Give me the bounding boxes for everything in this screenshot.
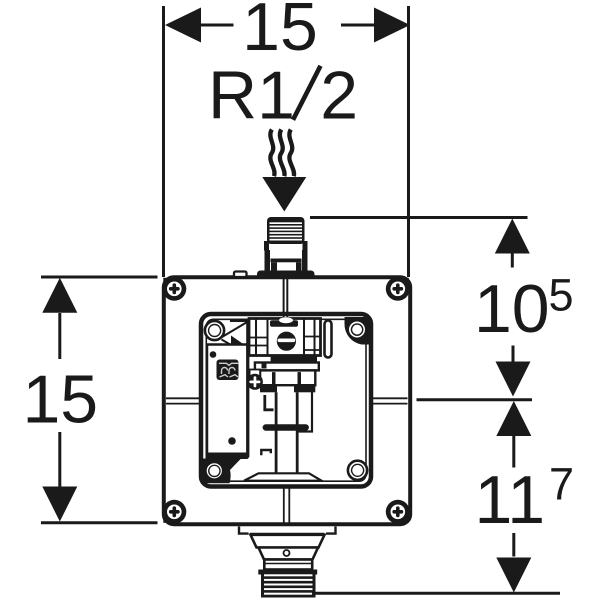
svg-text:10: 10: [474, 271, 550, 347]
bottom connector mounting bar: [250, 533, 325, 535]
water flow wavy line middle: [280, 130, 285, 177]
left angle bracket: [265, 395, 274, 410]
outlet pipe left wall: [275, 392, 278, 480]
dimension 11.7: lower stem: [512, 533, 515, 557]
bottom connector threaded end: [258, 570, 317, 598]
bottom connector cylinder: [264, 560, 312, 570]
protection box outer housing: [164, 277, 410, 524]
right housing lower edge: [299, 392, 313, 432]
water inlet arrow: [262, 177, 306, 212]
housing small white box: [250, 370, 261, 384]
valve slotted screw: [277, 332, 296, 351]
dimension 10.5: upper stem: [511, 254, 514, 268]
corner screw bottom-right: [386, 500, 410, 524]
dimension 15 top: left extension line: [162, 6, 165, 277]
dimension 15 top: right arrowhead: [374, 8, 410, 43]
corner screw top-right: [386, 277, 410, 301]
dimension 15 left: upper arrowhead: [42, 278, 77, 313]
label R1/2 slash: [293, 66, 321, 120]
svg-text:11: 11: [475, 462, 546, 538]
valve inlet pipe stub: [284, 279, 288, 320]
svg-text:15: 15: [242, 0, 318, 65]
dimension 11.7: upper stem: [512, 436, 515, 468]
bottom connector mounting tab left: [239, 527, 249, 534]
frame corner hole bottom-right: [348, 461, 367, 480]
frame corner hole top-right boss: [344, 317, 369, 345]
dimension 15 left: bottom extension line: [41, 521, 158, 524]
dimension 15 top: dimension line left segment: [200, 24, 234, 27]
valve housing dark square: [262, 364, 267, 369]
dimension 10.5: lower arrowhead: [496, 362, 531, 397]
left mounting plate: [207, 319, 248, 459]
svg-text:7: 7: [549, 459, 574, 510]
corner screw top-left: [162, 277, 186, 301]
inner frame outer outline: [201, 314, 371, 487]
dimension 15 left: upper stem: [58, 313, 61, 359]
valve top collar: [270, 317, 298, 326]
frame corner hole top-right: [348, 321, 365, 338]
corner screw bottom-left: [162, 500, 186, 524]
dimension mid extension line: [417, 398, 533, 401]
lower left hook clip: [261, 450, 271, 455]
box top edge tab: [234, 272, 247, 278]
plate rivet lower: [228, 437, 236, 445]
bottom support bracket: [244, 473, 322, 480]
phillips screw on valve: [247, 374, 263, 390]
top connector threaded head: [264, 217, 308, 251]
dimension 10.5: label: [474, 270, 574, 348]
top connector base flange: [257, 271, 315, 279]
box mid seam right: [373, 398, 408, 403]
water flow wavy line right: [289, 130, 294, 177]
frame corner hole top-left: [205, 321, 224, 340]
dimension 11.7: upper arrowhead: [496, 401, 531, 436]
valve bottom mass right: [294, 385, 315, 392]
top connector neck columns: [265, 250, 308, 271]
dimension 11.7: lower arrowhead: [496, 558, 531, 593]
bottom connector taper: [259, 548, 319, 560]
valve lower housing lower step: [260, 370, 315, 385]
dimension 11.7: label: [475, 459, 575, 539]
dimension 11.7: bottom extension line: [312, 592, 560, 595]
dimension 15 top: dimension line right segment: [341, 24, 375, 27]
dimension 15 left: lower arrowhead: [42, 487, 77, 522]
plate pictogram icon: [217, 360, 240, 381]
dimension 10.5: lower stem: [512, 346, 515, 363]
drop pipe below frame: [284, 487, 290, 524]
outlet pipe flange: [263, 424, 309, 430]
dimension 15 left: lower stem: [58, 432, 61, 487]
outlet pipe right wall: [296, 392, 299, 480]
valve lower collar bar: [249, 355, 321, 363]
plate rivet upper: [210, 351, 217, 358]
valve bottom mass left: [260, 385, 277, 392]
svg-text:5: 5: [549, 270, 574, 321]
bracket hatch lines top-left: [222, 322, 249, 355]
dimension 15 top: right extension line: [407, 6, 410, 277]
dimension 10.5: top extension line: [310, 216, 528, 219]
svg-text:15: 15: [22, 362, 98, 438]
frame corner hole bottom-left: [206, 462, 224, 480]
taper sight hole: [284, 550, 290, 556]
dimension 10.5: upper arrowhead: [495, 219, 530, 254]
dimension 15 top: left arrowhead: [165, 8, 201, 43]
valve main body: [249, 319, 321, 356]
frame corner hole bottom-left boss: [203, 457, 243, 483]
svg-text:R1: R1: [208, 58, 295, 134]
bottom connector mounting tab right: [326, 527, 336, 534]
housing window borders: [272, 372, 301, 385]
bottom connector flange: [251, 535, 325, 548]
svg-text:2: 2: [320, 58, 358, 134]
inner frame inner outline: [206, 319, 366, 481]
valve lower housing upper step: [255, 363, 319, 371]
box mid seam left: [166, 398, 200, 403]
label R1/2 supply thread: [208, 58, 358, 134]
water flow wavy line left: [270, 130, 274, 177]
dimension 15 left: top extension line: [41, 276, 158, 279]
valve right clip: [325, 321, 332, 358]
